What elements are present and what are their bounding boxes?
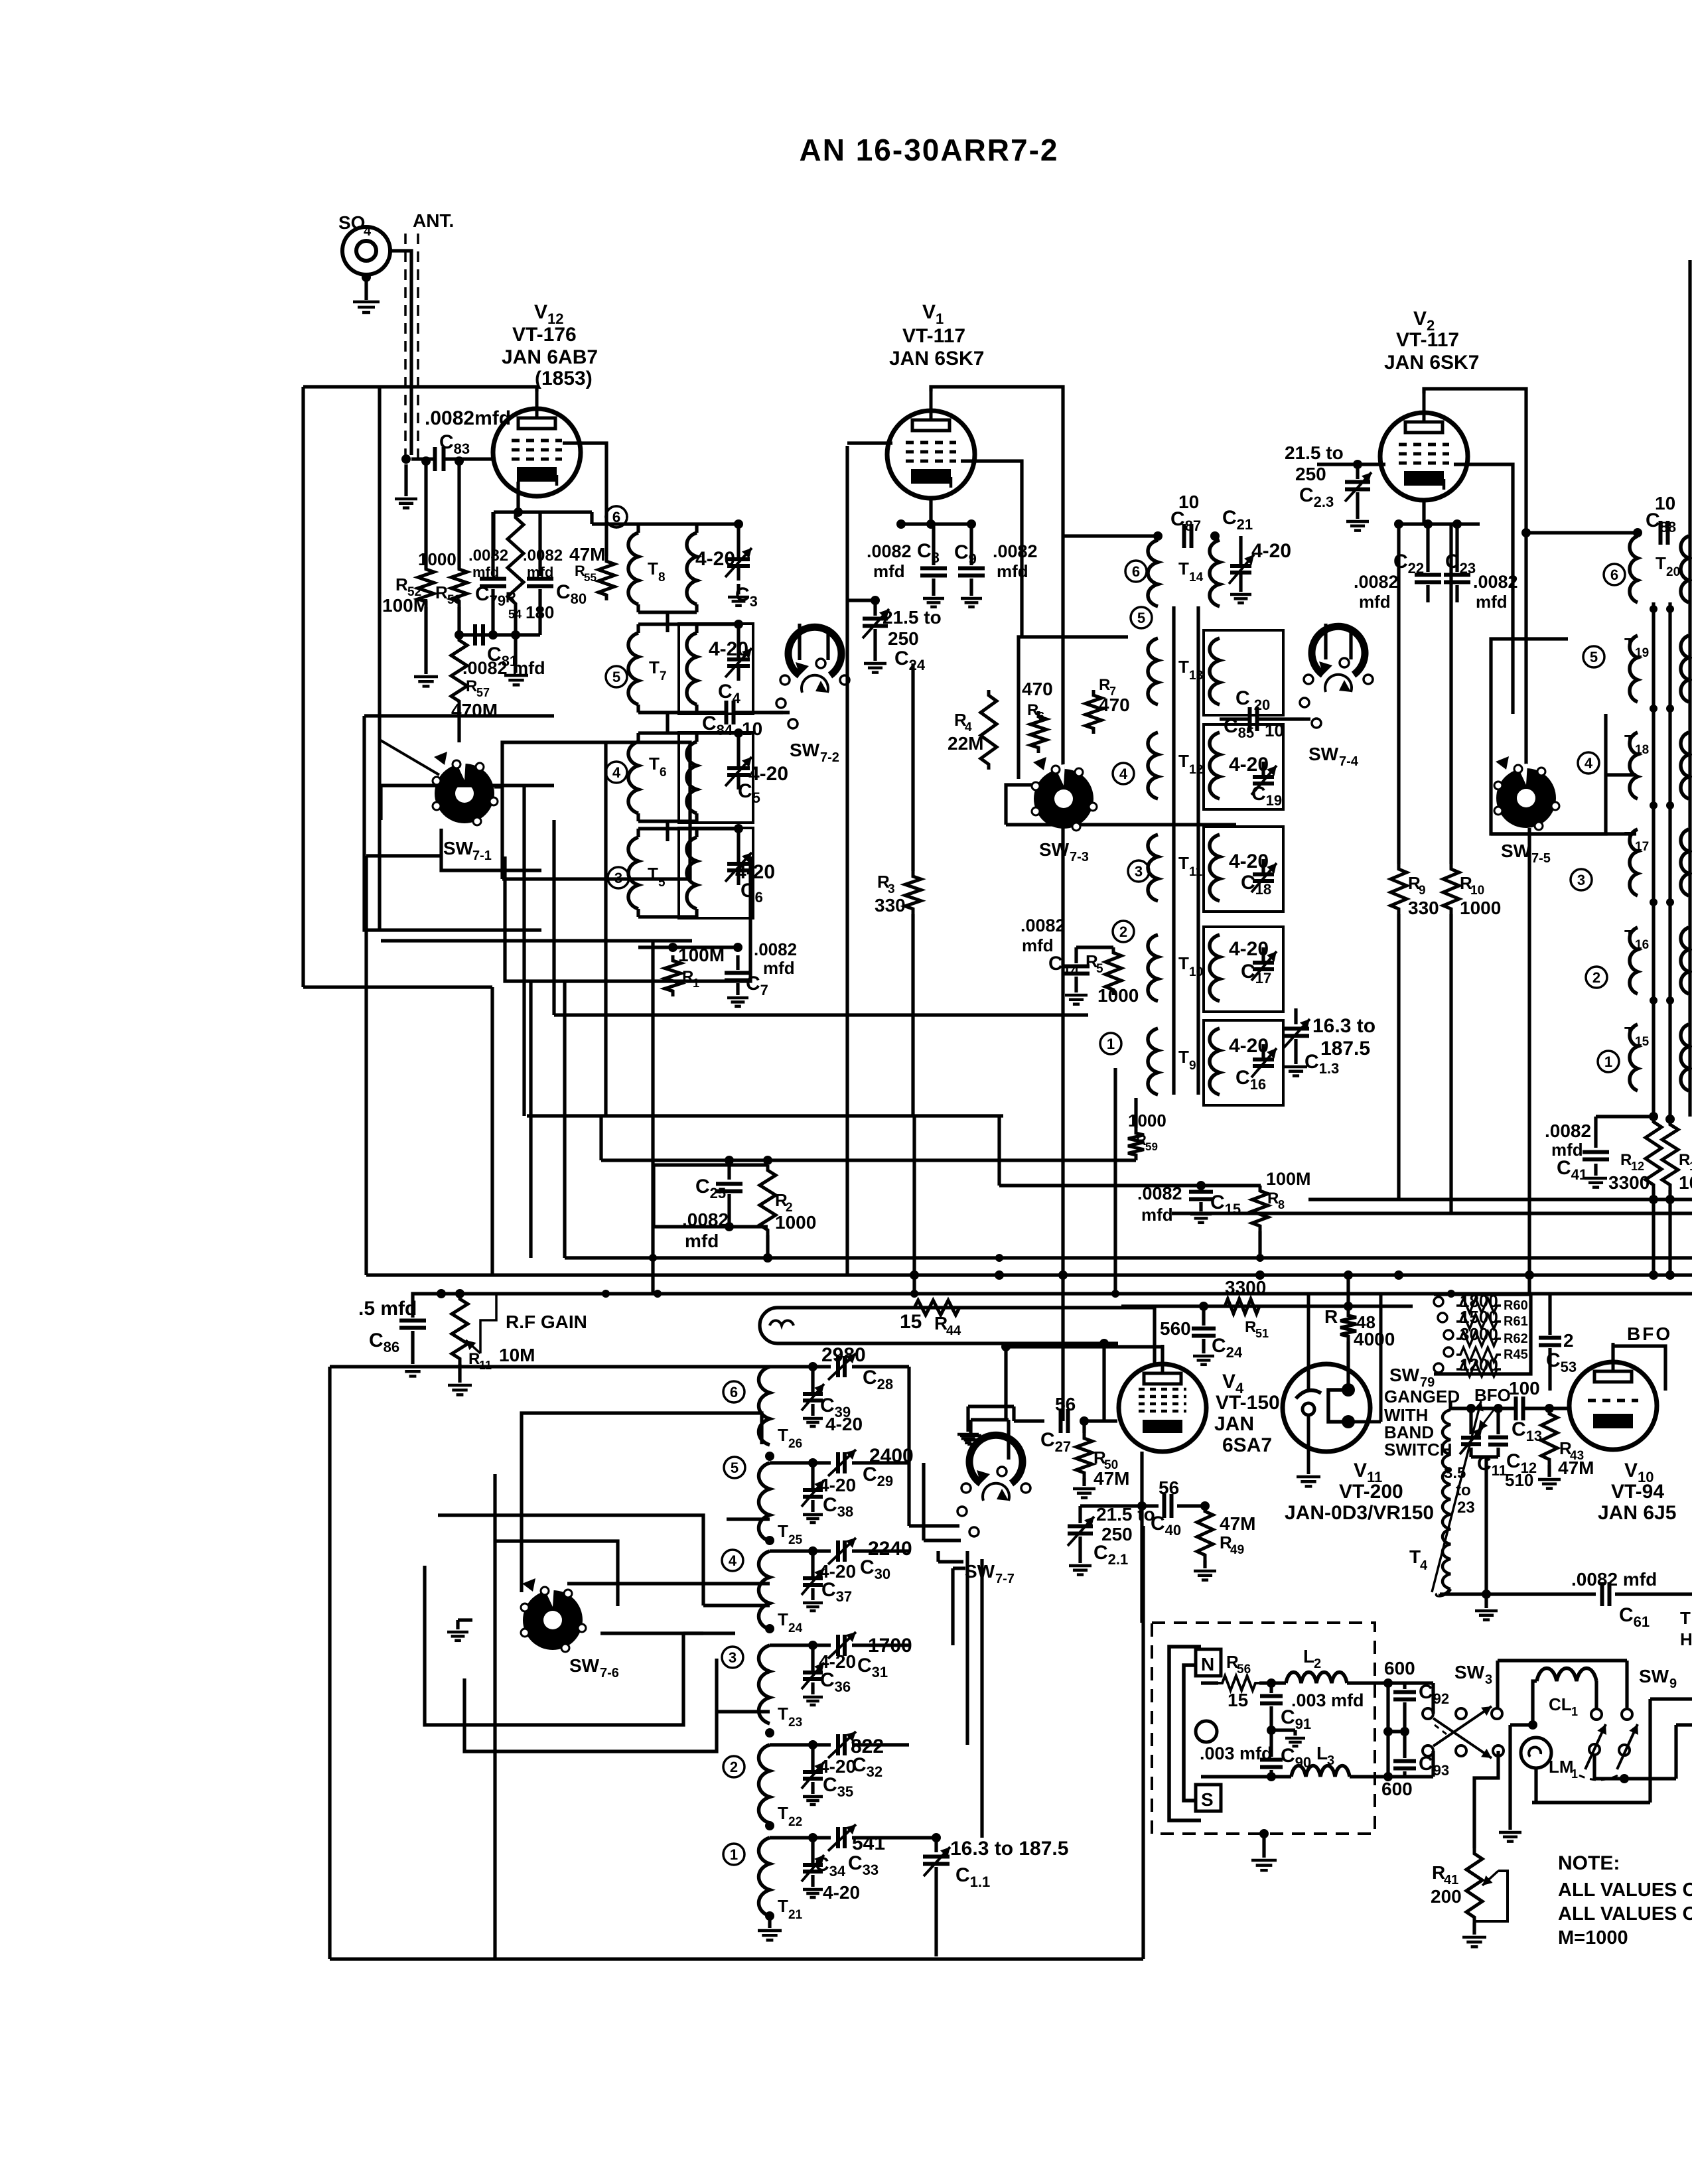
svg-text:100M: 100M [1266,1169,1311,1189]
svg-text:1000: 1000 [1460,898,1501,918]
wire SW3 top to SW9 [1496,1661,1499,1708]
rotary switch SW7-6 [523,1590,583,1650]
svg-text:7-2: 7-2 [820,750,839,765]
wire horizontal SW7-1 upper [381,784,554,787]
tube V12 VT-176 JAN 6AB7 [493,409,581,496]
svg-text:.0082mfd: .0082mfd [425,407,511,429]
svg-text:1: 1 [730,1846,738,1863]
svg-text:VT-176: VT-176 [512,324,577,346]
transformer T10 secondary coil [1210,935,1220,1001]
svg-text:2: 2 [1592,969,1600,986]
svg-text:4-20: 4-20 [695,548,735,570]
capacitor C2.1 21.5 to 250 [1080,1504,1142,1507]
resistor R57 470M [451,635,467,707]
rotary switch SW7-5 [1496,768,1556,828]
wire lower rail / C81 node [459,633,540,636]
svg-text:R: R [466,677,477,695]
svg-text:VT-117: VT-117 [1396,329,1459,351]
svg-text:R: R [1679,1151,1690,1169]
wire V2 screen to SW7-5 box [1454,464,1513,714]
wire R48 into V11 [1346,1388,1350,1391]
svg-text:10: 10 [742,718,762,739]
svg-text:R62: R62 [1504,1331,1528,1346]
transformer T15 secondary coil [1681,1024,1689,1091]
svg-text:T: T [1624,731,1635,751]
trimmer C11 3.5 to 23 [1469,1408,1472,1434]
shield box T11 [1204,827,1283,912]
lamp LM1 [1521,1738,1551,1768]
wire C25/R2 bottom [654,1225,768,1228]
svg-text:T: T [1656,553,1666,573]
trimmer C21 4-20 [1239,536,1242,564]
wire V1 screen to R7 box [961,461,1022,637]
circled contact 2 [1586,967,1607,988]
svg-text:T: T [1680,1608,1691,1628]
svg-text:.003 mfd: .003 mfd [1291,1690,1364,1710]
svg-text:19: 19 [1635,646,1649,660]
wire R1/C7 rail [638,945,738,949]
transformer T6 primary coil [628,742,638,813]
svg-text:11: 11 [1189,865,1203,879]
ground under dashed box [1259,1829,1269,1838]
tube V11 VT-200 JAN-0D3/VR150 [1283,1364,1370,1452]
svg-text:7-6: 7-6 [600,1666,619,1680]
svg-text:10M: 10M [499,1345,535,1365]
resistor R10 1000 [1449,524,1452,864]
capacitor C1.3 16.3 to 187.5 [1294,1008,1297,1024]
trimmer capacitor C38 4-20 [811,1463,814,1488]
resistor R41 200 [1466,1848,1482,1923]
resistor R43 47M [1545,1404,1554,1413]
svg-text:56: 56 [1237,1663,1251,1676]
wiring rectangles SW7-6 [522,1413,762,1592]
svg-text:3300: 3300 [1225,1277,1266,1298]
wire T24 row top with capacitor C30 2240 [768,1549,771,1552]
svg-text:541: 541 [852,1832,885,1854]
svg-text:1: 1 [1571,1767,1578,1781]
transformer T13 secondary coil [1210,638,1220,705]
svg-text:6: 6 [1038,710,1044,723]
svg-text:13: 13 [1189,669,1203,683]
wire V12 cathode down [516,482,520,512]
resistor R54 180 [508,512,524,609]
wire T7 top [638,622,739,626]
resistor R52 100M [418,564,434,607]
transformer T12 secondary coil [1210,732,1220,799]
wires SW7-2 stubs [798,624,801,660]
rotary switch SW7-4 (open) [1312,626,1365,675]
svg-text:4-20: 4-20 [1229,938,1269,960]
wire V1 output to T14 via C87 [1063,534,1158,537]
circled contact 5 [724,1457,745,1478]
trimmer capacitor C5 4-20 [727,766,750,770]
svg-text:6SA7: 6SA7 [1222,1434,1272,1456]
capacitor C8 .0082 [932,524,935,565]
wire SO4 to C83 (antenna lead) [390,251,411,455]
svg-text:3: 3 [1485,1672,1492,1687]
svg-text:.0082: .0082 [867,541,912,561]
svg-text:mfd: mfd [873,561,905,581]
shield box T9 [1204,1020,1283,1105]
svg-text:SW: SW [1308,744,1339,764]
transformer T10 primary coil [1148,935,1158,1001]
rotary switch SW7-2 (open) [788,627,841,675]
svg-text:250: 250 [888,628,919,649]
svg-text:4-20: 4-20 [825,1414,863,1434]
wire V10 plate loop [1613,1346,1665,1391]
tube V10 VT-94 JAN 6J5 [1569,1362,1657,1450]
transformer T20 secondary coil [1681,536,1689,602]
loop antenna N-S frame [1169,1647,1201,1820]
svg-text:V: V [922,301,936,323]
trimmer C16 [1261,1044,1265,1058]
shield box T5 [679,828,753,918]
svg-text:7-1: 7-1 [472,849,492,863]
capacitor C25 .0082 mfd [727,1165,731,1180]
svg-text:25: 25 [788,1533,803,1547]
svg-text:R60: R60 [1504,1298,1528,1313]
svg-text:T: T [1409,1546,1421,1567]
svg-text:4: 4 [729,1552,737,1569]
trimmer capacitor C6 4-20 [727,862,750,866]
svg-text:1: 1 [693,977,699,990]
wire V2 out to T20 via C88 [1526,531,1638,534]
capacitor C93 600 [1393,1759,1416,1763]
svg-text:1000: 1000 [775,1212,816,1233]
svg-text:R: R [682,968,693,986]
svg-text:T: T [1178,1047,1189,1067]
junction dots mixer coil chain [765,1452,774,1461]
ground stub left of C27 [1014,1419,1044,1422]
svg-text:4-20: 4-20 [1229,754,1269,776]
svg-text:JAN 6SK7: JAN 6SK7 [1384,352,1479,374]
svg-text:VT-94: VT-94 [1611,1481,1664,1503]
circled contact 6 [723,1381,744,1402]
svg-text:7-3: 7-3 [1070,850,1089,864]
svg-text:470: 470 [1022,679,1053,699]
bank B vertical rails [1172,606,1175,1095]
wire mixer coil chain to ground [768,1916,771,1928]
resistor R2 1000 [760,1165,776,1235]
resistor R51 3300 [1221,1299,1263,1314]
transformer T18 secondary coil [1681,732,1689,799]
wire T8 top [638,522,739,525]
vertical bus wires [364,856,368,1275]
svg-text:187.5: 187.5 [1320,1038,1370,1059]
svg-text:7: 7 [660,669,667,683]
svg-text:2: 2 [730,1759,738,1775]
svg-text:mfd: mfd [1141,1205,1173,1225]
svg-text:T: T [778,1425,788,1445]
wire inner vertical drop [378,387,381,930]
resistor R4 22M [981,690,997,770]
shield dashed lines [404,234,407,464]
svg-text:8: 8 [658,571,666,584]
svg-text:55: 55 [584,571,597,584]
wire left big rectangle drop [301,387,305,987]
circled contact 3 [1571,869,1592,890]
svg-text:4: 4 [1119,766,1128,782]
svg-text:R: R [435,582,448,602]
svg-text:mfd: mfd [685,1231,719,1251]
capacitor C24 21.5 to 250 [873,600,877,616]
svg-text:470: 470 [1099,695,1130,715]
svg-text:51: 51 [1255,1327,1269,1340]
svg-text:10: 10 [1470,884,1484,898]
svg-text:R.F GAIN: R.F GAIN [506,1312,587,1332]
svg-text:NOTE:: NOTE: [1558,1852,1620,1874]
svg-text:.0082: .0082 [1021,916,1066,935]
capacitor C85 10 [1248,707,1252,731]
circled contact 4 [1113,763,1134,784]
svg-text:R: R [395,575,408,594]
trimmer capacitor C37 4-20 [811,1551,814,1576]
circled 6 near V12 [606,506,627,527]
svg-text:T: T [778,1896,788,1916]
pointer wire into SW7-1 [380,740,439,775]
svg-text:.0082: .0082 [1545,1121,1591,1141]
wire T26 row top with capacitor C28 2980 [768,1365,771,1368]
svg-text:1: 1 [1689,1160,1692,1173]
svg-text:ALL VALUES OF R: ALL VALUES OF R [1558,1903,1692,1925]
svg-text:16: 16 [1635,938,1649,952]
svg-text:250: 250 [1295,464,1326,484]
svg-text:7-7: 7-7 [995,1572,1015,1586]
svg-text:1000: 1000 [1128,1111,1166,1130]
svg-text:T: T [1178,853,1189,873]
transformer T26 coil [759,1367,770,1445]
svg-text:JAN 6AB7: JAN 6AB7 [502,346,598,368]
wire R51 row [1121,1304,1413,1308]
resistor ladder R60 R61 R62 R45 [1434,1294,1531,1374]
wire T4/C11/C12/C13 rail [1450,1406,1516,1410]
svg-text:SW: SW [965,1561,995,1582]
ground below SO4 [353,301,380,304]
svg-text:2240: 2240 [868,1538,912,1560]
svg-text:1: 1 [1571,1705,1578,1718]
svg-text:H: H [1680,1629,1692,1649]
transformer T11 primary coil [1148,835,1158,901]
transformer T23 coil [759,1645,770,1724]
svg-text:23: 23 [1457,1499,1475,1517]
svg-text:44: 44 [946,1324,961,1338]
svg-text:6: 6 [660,766,667,780]
svg-text:R: R [1267,1190,1279,1207]
ground below C3 [737,584,740,594]
svg-text:15: 15 [1635,1035,1650,1049]
svg-text:600: 600 [1384,1658,1415,1678]
svg-text:4: 4 [1585,755,1593,772]
svg-text:5: 5 [731,1460,739,1476]
shield box T10 [1204,927,1283,1012]
trimmer capacitor C4 4-20 [727,657,750,661]
ground T4 bottom [1484,1594,1488,1608]
svg-text:6: 6 [1132,563,1140,580]
svg-text:21: 21 [788,1908,803,1922]
svg-text:N: N [1201,1654,1214,1674]
trimmer C18 [1261,859,1265,872]
wire T23 row top with capacitor C31 1700 [768,1643,771,1647]
svg-text:.5 mfd: .5 mfd [358,1298,417,1320]
wire T25 row top with capacitor C29 2400 [768,1461,771,1464]
resistor R7 470 [1086,690,1101,734]
svg-text:3: 3 [1135,863,1143,880]
svg-text:9: 9 [1669,1676,1677,1691]
transformer T9 secondary coil [1210,1028,1220,1095]
wiring box SW7-5 [1491,714,1606,834]
wire T4 bottom / C61 [1437,1589,1450,1596]
wire grid node verticals to R52 R53 [424,461,427,569]
capacitor C7 .0082 mfd [736,955,739,970]
resistor R56 15 [1218,1676,1259,1690]
transformer T9 primary coil [1148,1028,1158,1095]
svg-text:T: T [1178,751,1189,771]
svg-text:VT-200: VT-200 [1339,1481,1403,1503]
svg-text:16.3 to: 16.3 to [1312,1015,1375,1037]
svg-text:20: 20 [1666,565,1680,579]
wire V1 cathode rail [929,499,932,524]
svg-text:3: 3 [729,1649,737,1666]
circled contact 1 [1100,1033,1121,1054]
wire T5 bottom [638,915,697,918]
svg-text:49: 49 [1230,1543,1244,1557]
svg-text:T: T [1178,559,1189,579]
wire loop to R56 [1201,1681,1218,1684]
capacitor C79 .0082mfd [491,512,494,576]
svg-text:9: 9 [1419,884,1426,898]
svg-text:100: 100 [1509,1378,1540,1399]
svg-text:4-20: 4-20 [1229,851,1269,872]
svg-text:18: 18 [1635,743,1649,757]
inductor L3 [1291,1766,1350,1777]
svg-text:V: V [1624,1460,1638,1481]
svg-text:V: V [1354,1460,1367,1481]
wire T7 bottom [638,711,697,714]
circled contact 1 [1598,1051,1619,1072]
wire SW3 to C92/C93 [1431,1683,1435,1714]
capacitor C1.1 16.3 to 187.5 [934,1838,938,1852]
wire T6 top [638,731,739,734]
circled contact 2 [1113,921,1134,942]
resistor R5 1000 [1105,947,1121,995]
wire T22 row top with capacitor C32 822 [768,1743,771,1746]
resistor R48 4000 [1346,1275,1350,1310]
svg-text:T: T [778,1803,788,1823]
svg-text:47M: 47M [569,544,605,565]
svg-text:T: T [1624,828,1635,848]
shield box T7 [679,624,753,714]
svg-text:53: 53 [447,593,461,607]
bus wires middle [554,1013,1088,1016]
svg-text:AN 16-30ARR7-2: AN 16-30ARR7-2 [799,133,1058,167]
svg-text:510: 510 [1505,1470,1533,1490]
svg-text:3: 3 [888,882,895,896]
capacitor C14 .0082 mfd [1074,947,1078,963]
capacitor C84 10 [725,701,729,724]
transformer T15 primary coil [1630,1024,1638,1091]
svg-text:15: 15 [1228,1690,1248,1710]
svg-text:BFO: BFO [1474,1385,1511,1405]
transformer T12 primary coil [1148,732,1158,799]
capacitor C13 100 [1514,1397,1518,1420]
svg-text:BFO: BFO [1627,1324,1672,1344]
capacitor C24 560 [1202,1306,1205,1326]
resistor R59 1000 [1134,1098,1137,1128]
svg-text:47M: 47M [1558,1458,1594,1478]
svg-text:.0082: .0082 [1473,572,1518,592]
svg-text:JAN-0D3/VR150: JAN-0D3/VR150 [1285,1502,1434,1524]
svg-text:4-20: 4-20 [748,763,788,785]
wire V2 plate riser to SW7-5 [1524,533,1527,764]
svg-text:12: 12 [1631,1160,1644,1173]
transformer T8 primary coil [628,533,638,604]
transformer T21 coil [759,1838,770,1916]
svg-text:26: 26 [788,1437,802,1451]
svg-text:6: 6 [730,1384,738,1400]
resistor R1 100M [665,955,681,996]
transformer T7 secondary coil [687,633,697,705]
svg-text:T: T [778,1521,788,1541]
svg-text:R: R [1620,1151,1632,1169]
svg-text:V: V [1222,1371,1235,1393]
svg-text:57: 57 [476,686,490,699]
transformer T14 primary coil [1148,540,1158,606]
svg-text:7-4: 7-4 [1339,754,1359,769]
svg-text:LM: LM [1549,1757,1574,1777]
resistor R6 470 [1030,711,1046,753]
circled contact 4 [1578,752,1599,774]
svg-text:330: 330 [1408,898,1439,918]
svg-text:4: 4 [612,764,621,781]
svg-text:1000: 1000 [418,549,457,569]
circled contact 3 [1128,860,1149,882]
svg-text:56: 56 [1055,1394,1076,1414]
svg-text:mfd: mfd [1476,592,1508,612]
svg-text:47M: 47M [1093,1468,1129,1489]
svg-text:V: V [1413,308,1427,330]
svg-text:T: T [778,1704,788,1724]
svg-text:4: 4 [965,720,972,734]
svg-text:R: R [1245,1318,1256,1336]
resistor R8 100M [1252,1186,1268,1231]
capacitor C27 56 [1059,1409,1063,1433]
svg-text:GANGED: GANGED [1384,1387,1460,1406]
capacitor C9 .0082 [969,524,973,565]
rotary switch SW7-3 [1034,769,1093,829]
ground below C7 [727,996,748,1000]
svg-text:L: L [1316,1743,1328,1763]
svg-text:4-20: 4-20 [1229,1035,1269,1057]
svg-text:22M: 22M [948,733,983,754]
ground right of C91 [1267,1726,1276,1735]
svg-text:4-20: 4-20 [1251,540,1291,562]
transformer T14 secondary coil [1210,540,1220,606]
resistor R3 330 [911,663,914,871]
svg-text:.0082 mfd: .0082 mfd [462,658,545,678]
svg-text:10: 10 [1189,965,1203,979]
svg-text:VT-150: VT-150 [1216,1392,1280,1414]
svg-text:21.5 to: 21.5 to [882,607,942,628]
svg-text:SW: SW [1501,841,1531,861]
svg-text:T: T [1178,953,1189,973]
transformer T25 coil [759,1463,770,1541]
capacitor C90 .003 mfd [1269,1730,1273,1757]
wire outer mixer enclosure [328,1367,331,1959]
svg-text:R61: R61 [1504,1314,1528,1329]
circled contact 1 [723,1844,744,1865]
svg-text:21.5 to: 21.5 to [1096,1504,1155,1525]
svg-text:ANT.: ANT. [413,210,454,231]
